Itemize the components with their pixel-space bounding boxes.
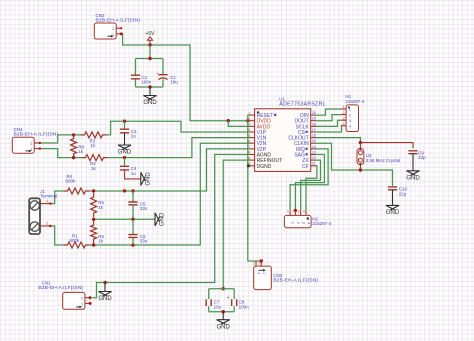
wire C7/C8 box top [209, 288, 235, 290]
label J1 name [40, 189, 45, 194]
svg-text:1k: 1k [78, 149, 84, 154]
svg-text:1u: 1u [131, 134, 137, 139]
svg-text:7: 7 [248, 145, 250, 149]
svg-text:1: 1 [248, 111, 250, 115]
terminal J1 [29, 198, 51, 234]
connector CN2 [94, 23, 123, 39]
label CN1 value [38, 285, 83, 291]
svg-text:600k: 600k [66, 179, 77, 184]
svg-text:CN4: CN4 [14, 127, 23, 132]
wire CN4 pin2 to R8 top [40, 135, 81, 143]
svg-text:GND: GND [143, 100, 157, 106]
junction DVDD branch node A [227, 119, 230, 122]
svg-text:2: 2 [46, 222, 48, 226]
ground GND at CN1 [98, 283, 112, 303]
svg-text:3: 3 [248, 123, 250, 127]
label CN3 value [273, 278, 318, 284]
junction C2/C1 top [148, 57, 151, 60]
junction R8 top [72, 133, 75, 136]
svg-text:12: 12 [312, 156, 316, 160]
svg-text:1: 1 [46, 199, 48, 203]
svg-text:GND: GND [98, 296, 112, 302]
wire +5V net from CN2 to DVDD [121, 34, 249, 121]
resistor R2 [82, 155, 108, 171]
svg-text:B2B-EH-A (LF)(SN): B2B-EH-A (LF)(SN) [96, 18, 141, 24]
capacitor C7 [206, 299, 221, 309]
junction C6 bottom [131, 243, 134, 246]
connector H2 [284, 210, 311, 228]
junction +5V node [148, 43, 151, 46]
resistor R3 [81, 132, 107, 148]
svg-text:600k: 600k [70, 238, 81, 243]
wire crystal top to C9 (maroon net) [360, 143, 413, 149]
svg-text:3: 3 [298, 210, 300, 214]
wire J1 pin1 to R4 [50, 191, 63, 204]
junction R5/R6 node [92, 218, 95, 221]
wire C2/C1 parallel box top [136, 58, 164, 60]
power +5V symbol [145, 31, 155, 45]
wire C7 leads [208, 289, 210, 312]
wire U1 pin 20 to H1 pin 1 [316, 109, 341, 115]
junction mystery node on V2P row [123, 189, 126, 192]
wire J1 pin2 to R1 [50, 226, 63, 245]
wire C6 bottom lead [132, 237, 134, 245]
ground GND below C3 [118, 133, 132, 156]
svg-text:CN1: CN1 [42, 280, 51, 285]
label H2 value [312, 221, 332, 226]
svg-text:GND: GND [406, 175, 420, 181]
ground GND right of filter row [155, 212, 166, 226]
label CN2 name [96, 13, 105, 18]
wire AGND to CN1 ground rail [105, 155, 249, 283]
svg-text:17: 17 [312, 128, 316, 132]
svg-text:9: 9 [248, 156, 250, 160]
svg-text:11: 11 [312, 162, 316, 166]
svg-text:18: 18 [312, 122, 316, 126]
svg-text:+: + [227, 296, 230, 302]
ground GND below C7/C8 [217, 312, 231, 331]
wire R4 to V2P row [90, 149, 250, 191]
label H2 name [312, 216, 318, 221]
resistor R6 [91, 221, 105, 244]
svg-text:2: 2 [253, 261, 255, 265]
svg-text:Terminal: Terminal [40, 194, 57, 199]
svg-text:215297-4: 215297-4 [345, 99, 365, 104]
junction CN1 ground node [103, 281, 106, 284]
label H1 name [345, 94, 351, 99]
svg-text:14: 14 [312, 145, 316, 149]
wire RESET tie to DVDD [248, 115, 249, 121]
wire C8 leads [233, 289, 235, 312]
svg-text:5: 5 [248, 134, 250, 138]
op-amp U1 ADE7753 energy meter IC [246, 109, 316, 172]
svg-text:19: 19 [312, 117, 316, 121]
wire U1 pin 17 to H1 pin 4 [316, 126, 341, 132]
label H1 value [345, 99, 365, 104]
svg-text:1: 1 [262, 272, 266, 274]
wire C2/C1 parallel box bottom [136, 86, 164, 88]
svg-text:4: 4 [303, 210, 305, 214]
wire U1 pin 12 to H2 pin 3 [301, 160, 321, 210]
svg-text:10u: 10u [170, 80, 178, 85]
svg-text:22p: 22p [418, 155, 426, 160]
wire C7/C8 box bottom [209, 311, 235, 313]
capacitor C5 [128, 201, 147, 211]
wire C4 top lead [124, 158, 126, 167]
svg-text:10u: 10u [214, 304, 222, 309]
resistor R5 [91, 193, 105, 217]
svg-text:6: 6 [248, 139, 250, 143]
svg-text:GND: GND [217, 324, 231, 330]
wire R2 right to V1N [108, 138, 250, 158]
svg-text:1k: 1k [91, 143, 97, 148]
label U1 value [279, 102, 326, 108]
svg-text:33n: 33n [140, 206, 148, 211]
junction C3 top [123, 120, 126, 123]
wire C5 bottom lead [132, 205, 134, 220]
svg-text:B2B-EH-A (LF)(SN): B2B-EH-A (LF)(SN) [14, 132, 59, 138]
svg-text:+: + [156, 71, 159, 76]
svg-text:GND: GND [386, 210, 400, 216]
label U3 name [366, 153, 372, 158]
wire +5V feed down to CN3 [248, 121, 261, 261]
label CN4 value [14, 132, 59, 138]
svg-text:B2B-EH-A (LF)(SN): B2B-EH-A (LF)(SN) [273, 278, 318, 284]
svg-text:33n: 33n [140, 239, 148, 244]
wire analog ground row [94, 218, 155, 220]
label J1 value [40, 194, 57, 199]
svg-text:DGND: DGND [257, 164, 272, 170]
svg-text:1: 1 [343, 105, 345, 109]
wire CLKIN to crystal bottom and C10 [316, 143, 392, 186]
svg-text:2: 2 [112, 27, 114, 31]
wire C2 leads [135, 59, 137, 88]
wire REFINOUT to C7/C8 [223, 160, 249, 289]
junction R4/R5 node [92, 189, 95, 192]
wire U1 pin 19 to H1 pin 2 [316, 115, 341, 121]
connector H1 [341, 105, 359, 132]
connector CN4 [12, 137, 41, 153]
svg-text:CF: CF [302, 164, 309, 170]
junction crystal bottom [359, 168, 362, 171]
svg-text:1k: 1k [98, 205, 104, 210]
svg-text:CN3: CN3 [273, 273, 282, 278]
svg-text:GND: GND [118, 150, 132, 156]
connector CN1 [63, 292, 92, 309]
junction R8 bottom [72, 156, 75, 159]
svg-text:20: 20 [312, 111, 316, 115]
wire CN4 pin1 to R8 bottom [40, 149, 82, 158]
junction C5 top [131, 189, 134, 192]
wire C1 leads [162, 59, 164, 88]
svg-text:13: 13 [312, 150, 316, 154]
svg-text:3.58 MHz Crystal: 3.58 MHz Crystal [366, 158, 401, 163]
wire crystal bottom stub [359, 164, 361, 170]
svg-text:ADE7753ARSZRL: ADE7753ARSZRL [279, 102, 326, 108]
wire C6 top lead [132, 219, 134, 234]
svg-text:+5V: +5V [145, 31, 155, 37]
svg-text:GND: GND [145, 172, 151, 186]
wire U1 pin 18 to H1 pin 3 [316, 120, 341, 126]
label CN2 value [96, 18, 141, 24]
svg-text:1k: 1k [98, 239, 104, 244]
junction R1/R6 node [92, 243, 95, 246]
connector CN3 [253, 261, 271, 290]
capacitor C10 [388, 187, 408, 197]
resistor R1 [64, 233, 90, 248]
svg-text:4: 4 [343, 122, 345, 126]
svg-text:100n: 100n [141, 80, 152, 85]
svg-text:1: 1 [287, 210, 289, 214]
svg-text:2: 2 [343, 111, 345, 115]
svg-text:B2B-EH-A (LF)(SN): B2B-EH-A (LF)(SN) [38, 285, 83, 291]
capacitor C8 [227, 296, 250, 310]
svg-text:10: 10 [246, 162, 250, 166]
wire C3 top lead [124, 121, 126, 129]
svg-text:CN2: CN2 [96, 13, 105, 18]
junction C4 top [123, 156, 126, 159]
capacitor C3 [120, 129, 137, 139]
svg-text:GND: GND [160, 212, 166, 226]
wire R1 to V2N row [90, 143, 250, 245]
wire +5V branch to C2/C1 [149, 45, 151, 59]
junction C7/C8 top [222, 287, 225, 290]
ground GND below C2/C1 [143, 87, 157, 106]
label CN4 name [14, 127, 23, 132]
svg-text:1u: 1u [131, 171, 137, 176]
resistor R4 [64, 174, 90, 194]
ground GND below C9 [406, 154, 420, 182]
svg-text:4: 4 [248, 128, 250, 132]
svg-text:3: 3 [343, 116, 345, 120]
junction C7/C8 bottom [222, 310, 225, 313]
svg-text:2: 2 [257, 272, 261, 274]
ground GND below C10 [386, 190, 400, 216]
svg-text:2: 2 [81, 297, 83, 301]
wire U1 pin 11 to H2 pin 4 [306, 166, 317, 211]
node DGND pin dot [247, 164, 250, 167]
svg-text:2: 2 [292, 210, 294, 214]
wire C5 top lead [132, 191, 134, 202]
transistor U3 crystal 3.58MHz [357, 143, 364, 166]
junction C2/C1 bottom [148, 85, 151, 88]
svg-text:16: 16 [312, 134, 316, 138]
junction crystal top [359, 141, 362, 144]
wire U1 pin 14 to H2 pin 1 [290, 149, 328, 210]
junction CN3 pin 1 [260, 259, 263, 262]
junction H2 pin 2 [294, 209, 297, 212]
svg-text:1k: 1k [91, 166, 97, 171]
wire C4 bottom to ground [125, 170, 141, 179]
svg-text:100n: 100n [239, 304, 250, 309]
capacitor C6 [128, 234, 147, 244]
label U1 name [279, 97, 285, 102]
capacitor C4 [120, 166, 137, 176]
svg-text:2: 2 [248, 117, 250, 121]
svg-text:215297-4: 215297-4 [312, 221, 332, 226]
junction C5/C6 node [131, 218, 134, 221]
svg-text:8: 8 [248, 151, 250, 155]
junction DVDD branch node B [246, 119, 249, 122]
capacitor C9 [408, 150, 426, 160]
label CN3 name [273, 273, 282, 278]
wire U1 pin 13 to H2 pin 2 [295, 155, 324, 211]
capacitor C2 [131, 75, 152, 85]
svg-text:15: 15 [312, 139, 316, 143]
label U3 value [366, 158, 401, 163]
wire CN1 pin2 to ground node [92, 283, 105, 298]
svg-text:1: 1 [258, 261, 260, 265]
svg-text:1: 1 [81, 302, 83, 306]
capacitor C1 [156, 71, 178, 84]
ground GND right of C4 [140, 172, 151, 186]
label CN1 name [42, 280, 51, 285]
svg-text:22p: 22p [399, 191, 407, 196]
wire CLKOUT to crystal top [316, 138, 360, 143]
wire R3 right to V1P [107, 121, 250, 135]
resistor R8 [71, 135, 85, 158]
svg-text:2: 2 [30, 142, 32, 146]
wire AVDD tie to DVDD [228, 121, 249, 127]
